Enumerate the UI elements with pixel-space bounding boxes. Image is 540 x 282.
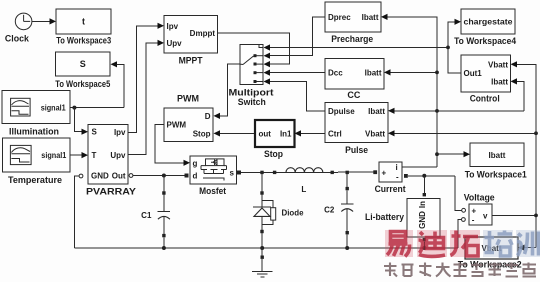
wire control line to multiport in1 [270,46,448,48]
svg-text:g: g [193,159,198,168]
svg-text:Ipv: Ipv [167,22,179,31]
wire control out1 to chargestate [448,22,461,73]
Vbatt To Workspace2 block [458,237,522,270]
watermark line1 char yi [385,230,413,257]
wire PVARRAY Ipv to MPPT [128,26,158,133]
vbatt vertical bus [517,64,536,247]
svg-text:CC: CC [347,90,360,100]
svg-text:Out: Out [112,172,126,181]
diode branch wire [261,172,263,191]
svg-text:To Workspace1: To Workspace1 [465,170,527,180]
svg-text:Pulse: Pulse [345,145,368,155]
svg-text:GND: GND [91,172,109,181]
Control block [461,55,511,104]
Multiport Switch block [229,44,274,107]
MPPT block [164,16,218,66]
wire to li-battery in [423,176,425,195]
svg-text:Vbatt: Vbatt [488,60,508,69]
svg-text:i: i [396,163,398,172]
junction illumination [72,106,76,110]
ground symbol [252,248,273,277]
svg-text:signal1: signal1 [41,151,66,160]
Pulse block [325,103,388,155]
svg-text:PWM: PWM [167,120,187,129]
svg-text:signal1: signal1 [41,104,66,113]
svg-text:Mosfet: Mosfet [199,186,226,196]
watermark line1 char tuo [450,230,480,257]
svg-text:+: + [472,206,477,215]
svg-text:+: + [382,169,387,178]
svg-text:Dmppt: Dmppt [190,29,216,38]
svg-text:S: S [80,59,86,69]
Temperature block [2,138,70,185]
svg-text:PWM: PWM [177,94,199,104]
svg-text:Illumination: Illumination [9,127,59,137]
wire illumination node [70,107,124,109]
junction C2 top [346,171,349,174]
svg-text:Ibatt: Ibatt [489,151,506,160]
svg-text:chargestate: chargestate [464,18,514,27]
Li-battery block [365,193,440,248]
wire multiport out to PWM D [220,64,240,116]
Mosfet block [190,156,237,196]
wire battery plus node [408,175,455,177]
wire current i to ibatt bus [402,166,437,168]
svg-text:Ibatt: Ibatt [365,68,382,77]
svg-text:Out1: Out1 [464,69,483,78]
svg-text:To Workspace5: To Workspace5 [55,79,110,89]
svg-text:Upv: Upv [110,151,126,160]
main power wire from mosfet s to current [241,171,375,173]
svg-text:Temperature: Temperature [8,175,62,185]
Stop block [255,120,295,159]
svg-text:L: L [301,185,306,194]
wire Dcc to multiport in4 [270,72,325,74]
watermark line1 char pei [483,230,513,257]
wire vbatt bus to workspace2 [525,247,537,249]
junction ibatt cc [435,71,439,75]
junction C1 top [162,174,166,178]
wire S workspace [111,61,118,67]
CC block [325,59,384,101]
clock block [5,13,32,43]
svg-text:C1: C1 [141,211,152,220]
svg-text:Control: Control [470,94,500,104]
svg-text:-: - [396,173,399,182]
Current measurement block [373,162,405,194]
port Out circle [129,174,133,178]
svg-text:D: D [205,112,211,121]
watermark line2 [384,263,536,277]
svg-text:To Workspace3: To Workspace3 [56,36,111,46]
svg-text:out: out [259,130,272,139]
svg-text:d: d [193,172,198,181]
svg-text:-: - [472,216,475,225]
svg-text:Dprec: Dprec [328,13,351,22]
port GND circle [79,174,83,178]
svg-text:Diode: Diode [282,209,305,218]
junction battery bus [422,246,426,250]
svg-text:MPPT: MPPT [179,55,203,65]
svg-text:Dpulse: Dpulse [328,107,355,116]
wire ibatt bus to CC [391,71,438,73]
svg-text:C2: C2 [324,206,335,215]
inductor L [273,168,334,194]
wire Dprec to multiport in2 [270,17,325,56]
wire stop out to PWM stop [220,132,255,134]
wire temperature to PVARRAY T [70,154,82,156]
svg-text:Precharge: Precharge [331,34,373,44]
junction C1 bus [162,246,166,250]
svg-text:Voltage: Voltage [464,193,495,203]
svg-text:Dcc: Dcc [328,68,343,77]
wire ibatt row to pulse and control [395,110,524,112]
junction diode bus / ground [260,246,264,250]
svg-text:Multiport: Multiport [229,88,274,98]
svg-text:Ibatt: Ibatt [362,13,379,22]
junction vbatt row [534,131,538,135]
svg-text:In: In [418,201,427,208]
wire clock to t [32,20,50,22]
To Workspace3 block t [56,9,111,46]
wire out row to mosfet d [133,175,185,177]
capacitor C2 [324,172,353,248]
junction v out [534,214,538,218]
svg-text:Switch: Switch [238,97,266,107]
svg-text:GND: GND [418,211,427,229]
wire v out to vbatt bus [492,214,536,216]
junction diode top [260,171,263,174]
svg-text:T: T [92,151,97,160]
svg-text:Ibatt: Ibatt [368,107,385,116]
svg-text:To Workspace4: To Workspace4 [454,36,516,46]
PWM block [164,94,213,142]
svg-text:Li-battery: Li-battery [365,212,404,222]
wire ibatt bus to precharge [388,17,438,167]
To Workspace5 block S [55,52,110,89]
Precharge block [325,2,381,44]
svg-text:PVARRAY: PVARRAY [86,187,136,197]
watermark line1 char di [417,230,447,257]
svg-text:Clock: Clock [5,34,30,44]
ground bus wire [74,247,458,249]
svg-text:Ibatt: Ibatt [491,77,508,86]
svg-text:Ipv: Ipv [114,128,126,137]
svg-text:t: t [82,17,85,27]
port s square [237,171,241,175]
svg-text:s: s [230,168,235,177]
wire pulse ctrl to stop in1 [301,132,325,134]
junction ibatt workspace1 [435,152,439,156]
wire battery node to voltage plus [455,176,462,211]
junction control line [446,46,450,50]
Voltage measurement block [462,193,495,226]
diode D1 [253,191,304,248]
svg-text:In1: In1 [280,130,292,139]
svg-text:Ctrl: Ctrl [328,129,342,138]
junction C2 bus [345,246,349,250]
svg-text:Stop: Stop [264,149,283,159]
junction ibatt pulse [435,109,439,113]
junction battery top [422,174,426,178]
multiport input arrowheads [264,44,271,50]
wire voltage minus to ground bus [458,220,461,249]
chargestate block [454,9,516,46]
svg-text:Vbatt: Vbatt [365,129,385,138]
wire ibatt bus to workspace1 [437,153,464,155]
svg-text:v: v [483,212,488,221]
port d square [185,174,189,178]
PWM to mosfet g wire [155,124,184,163]
wire vbatt row from pulse to right bus [395,132,537,134]
watermark line1 char xun [516,230,540,257]
svg-text:S: S [92,128,98,137]
PVARRAY block [86,125,136,197]
Ibatt To Workspace1 block [465,143,527,180]
Illumination block [2,90,70,136]
wire Dpulse to multiport in5 [270,82,325,111]
capacitor C1 [141,176,170,249]
wire PVARRAY GND to ground bus [74,176,79,248]
wire illumination to PVARRAY S [74,108,81,132]
svg-text:Upv: Upv [167,39,183,48]
wire PVARRAY Upv to MPPT [128,43,158,155]
svg-text:Current: Current [375,184,406,194]
wire Dmppt to multiport in3 [218,33,290,64]
svg-text:Stop: Stop [193,129,211,138]
port current minus [404,174,408,178]
